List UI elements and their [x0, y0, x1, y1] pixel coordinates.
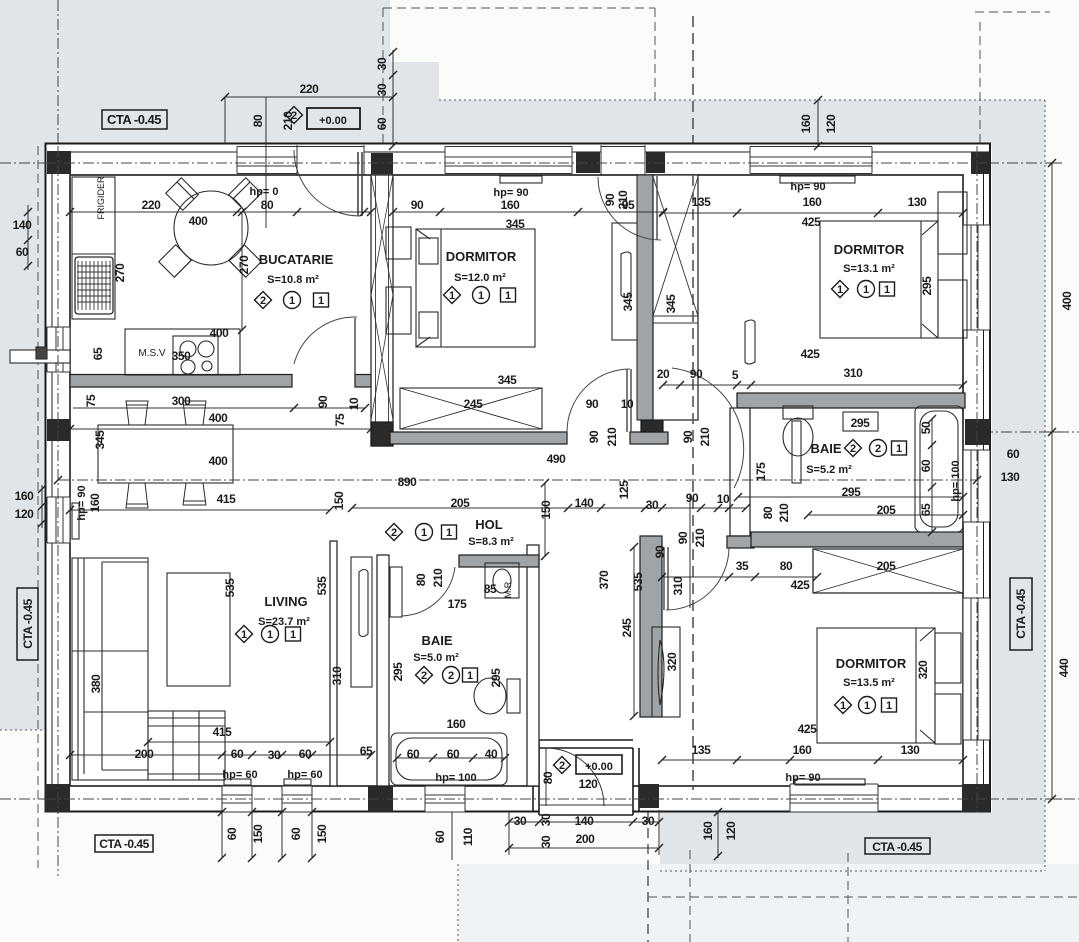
- svg-text:160: 160: [15, 489, 35, 503]
- svg-text:2: 2: [875, 443, 881, 455]
- svg-text:2: 2: [291, 110, 297, 122]
- svg-text:60: 60: [16, 245, 29, 259]
- svg-text:60: 60: [225, 827, 239, 840]
- svg-text:1: 1: [837, 284, 843, 296]
- svg-text:1: 1: [478, 290, 484, 302]
- svg-text:75: 75: [333, 413, 347, 426]
- svg-text:120: 120: [579, 777, 599, 791]
- svg-text:90: 90: [603, 193, 617, 206]
- svg-text:hp= 60: hp= 60: [222, 769, 257, 781]
- svg-text:140: 140: [575, 496, 595, 510]
- svg-text:120: 120: [824, 114, 838, 134]
- svg-text:90: 90: [653, 545, 667, 558]
- svg-text:120: 120: [15, 507, 35, 521]
- svg-text:425: 425: [798, 722, 818, 736]
- svg-text:hp= 90: hp= 90: [76, 485, 88, 520]
- svg-text:90: 90: [676, 531, 690, 544]
- svg-text:210: 210: [431, 568, 445, 588]
- svg-text:85: 85: [484, 582, 497, 596]
- svg-text:1: 1: [864, 700, 870, 712]
- svg-text:120: 120: [724, 821, 738, 841]
- svg-text:65: 65: [360, 744, 373, 758]
- svg-text:5: 5: [732, 368, 739, 382]
- svg-text:295: 295: [920, 276, 934, 296]
- svg-text:160: 160: [447, 717, 467, 731]
- svg-text:S=13.5 m²: S=13.5 m²: [843, 677, 895, 689]
- svg-text:LIVING: LIVING: [264, 594, 307, 609]
- svg-text:90: 90: [411, 198, 424, 212]
- svg-text:175: 175: [448, 597, 468, 611]
- svg-text:+0.00: +0.00: [319, 115, 347, 127]
- svg-text:135: 135: [692, 743, 712, 757]
- svg-text:80: 80: [251, 114, 265, 127]
- svg-text:350: 350: [172, 349, 192, 363]
- svg-text:160: 160: [501, 198, 521, 212]
- svg-text:hp= 100: hp= 100: [950, 460, 962, 501]
- svg-text:1: 1: [884, 284, 890, 296]
- svg-text:M.R: M.R: [503, 581, 513, 598]
- svg-text:140: 140: [575, 814, 595, 828]
- svg-text:425: 425: [791, 578, 811, 592]
- svg-text:hp= 90: hp= 90: [790, 181, 825, 193]
- svg-text:S=8.3 m²: S=8.3 m²: [468, 536, 514, 548]
- svg-text:1: 1: [840, 700, 846, 712]
- svg-text:1: 1: [241, 629, 247, 641]
- svg-text:270: 270: [113, 263, 127, 283]
- svg-text:2: 2: [559, 760, 565, 772]
- svg-text:90: 90: [686, 491, 699, 505]
- svg-text:1: 1: [421, 527, 427, 539]
- svg-text:S=10.8 m²: S=10.8 m²: [267, 274, 319, 286]
- svg-text:20: 20: [657, 367, 670, 381]
- svg-text:90: 90: [681, 430, 695, 443]
- svg-text:110: 110: [461, 827, 475, 846]
- svg-text:210: 210: [777, 503, 791, 523]
- svg-text:80: 80: [261, 198, 274, 212]
- svg-text:200: 200: [576, 832, 596, 846]
- svg-text:2: 2: [448, 670, 454, 682]
- svg-text:160: 160: [793, 743, 813, 757]
- svg-text:BAIE: BAIE: [810, 441, 841, 456]
- svg-text:1: 1: [289, 295, 295, 307]
- svg-text:160: 160: [803, 195, 823, 209]
- svg-text:135: 135: [692, 195, 712, 209]
- svg-text:BAIE: BAIE: [421, 633, 452, 648]
- svg-text:1: 1: [505, 290, 511, 302]
- svg-text:hp= 60: hp= 60: [287, 769, 322, 781]
- svg-text:150: 150: [332, 491, 346, 511]
- svg-text:S=13.1 m²: S=13.1 m²: [843, 263, 895, 275]
- svg-text:90: 90: [316, 395, 330, 408]
- svg-text:2: 2: [391, 527, 397, 539]
- svg-text:S=12.0 m²: S=12.0 m²: [454, 272, 506, 284]
- svg-text:400: 400: [209, 411, 229, 425]
- svg-text:370: 370: [597, 570, 611, 590]
- svg-text:425: 425: [801, 347, 821, 361]
- svg-text:160: 160: [701, 821, 715, 841]
- svg-text:1: 1: [290, 629, 296, 641]
- svg-text:130: 130: [908, 195, 928, 209]
- svg-text:+0.00: +0.00: [585, 761, 613, 773]
- svg-text:210: 210: [693, 528, 707, 548]
- svg-text:345: 345: [93, 430, 107, 450]
- svg-text:400: 400: [209, 454, 229, 468]
- svg-text:535: 535: [315, 576, 329, 596]
- svg-text:160: 160: [88, 493, 102, 513]
- svg-text:CTA -0.45: CTA -0.45: [107, 112, 161, 127]
- svg-text:150: 150: [251, 824, 265, 844]
- svg-text:210: 210: [616, 190, 630, 210]
- svg-text:DORMITOR: DORMITOR: [836, 656, 907, 671]
- svg-text:380: 380: [89, 674, 103, 694]
- svg-text:30: 30: [539, 813, 553, 826]
- svg-text:890: 890: [398, 475, 418, 489]
- svg-text:60: 60: [407, 747, 420, 761]
- svg-text:310: 310: [844, 366, 864, 380]
- svg-text:hp= 0: hp= 0: [249, 186, 278, 198]
- svg-text:400: 400: [189, 214, 209, 228]
- svg-text:BUCATARIE: BUCATARIE: [259, 252, 334, 267]
- svg-text:1: 1: [896, 443, 902, 455]
- svg-text:60: 60: [375, 117, 389, 130]
- svg-text:90: 90: [586, 397, 599, 411]
- svg-text:300: 300: [172, 394, 192, 408]
- svg-text:60: 60: [1007, 447, 1020, 461]
- svg-text:140: 140: [13, 218, 33, 232]
- svg-text:1: 1: [318, 295, 324, 307]
- svg-text:S=5.0 m²: S=5.0 m²: [413, 652, 459, 664]
- svg-text:150: 150: [315, 824, 329, 844]
- svg-text:320: 320: [665, 652, 679, 672]
- svg-text:295: 295: [851, 416, 871, 430]
- svg-text:60: 60: [919, 459, 933, 472]
- svg-text:50: 50: [919, 421, 933, 434]
- svg-text:FRIGIDER: FRIGIDER: [96, 176, 106, 220]
- svg-text:310: 310: [330, 666, 344, 686]
- svg-text:2: 2: [850, 443, 856, 455]
- svg-text:75: 75: [84, 394, 98, 407]
- svg-text:295: 295: [489, 668, 503, 688]
- svg-text:80: 80: [780, 559, 793, 573]
- svg-text:60: 60: [447, 747, 460, 761]
- svg-text:415: 415: [213, 725, 233, 739]
- svg-text:130: 130: [1001, 470, 1021, 484]
- svg-text:60: 60: [231, 747, 244, 761]
- svg-text:60: 60: [289, 827, 303, 840]
- svg-text:205: 205: [451, 496, 471, 510]
- svg-text:1: 1: [467, 670, 473, 682]
- svg-text:345: 345: [664, 294, 678, 314]
- svg-text:130: 130: [901, 743, 921, 757]
- svg-text:80: 80: [761, 506, 775, 519]
- svg-text:245: 245: [620, 618, 634, 638]
- svg-text:425: 425: [802, 215, 822, 229]
- svg-text:345: 345: [621, 292, 635, 312]
- svg-text:40: 40: [485, 747, 498, 761]
- svg-text:345: 345: [498, 373, 518, 387]
- svg-text:150: 150: [539, 500, 553, 520]
- svg-text:65: 65: [919, 503, 933, 516]
- svg-text:1: 1: [863, 284, 869, 296]
- svg-text:80: 80: [541, 771, 555, 784]
- svg-text:60: 60: [299, 747, 312, 761]
- svg-text:CTA -0.45: CTA -0.45: [1014, 588, 1028, 638]
- svg-text:210: 210: [605, 427, 619, 447]
- svg-text:30: 30: [539, 835, 553, 848]
- svg-text:hp= 100: hp= 100: [435, 772, 476, 784]
- svg-text:30: 30: [375, 83, 389, 96]
- svg-text:90: 90: [690, 367, 703, 381]
- svg-text:30: 30: [268, 748, 281, 762]
- svg-text:DORMITOR: DORMITOR: [446, 249, 517, 264]
- svg-text:M.S.V: M.S.V: [138, 348, 166, 359]
- svg-text:35: 35: [736, 559, 749, 573]
- svg-text:535: 535: [631, 572, 645, 592]
- svg-text:320: 320: [916, 660, 930, 680]
- svg-text:295: 295: [391, 662, 405, 682]
- svg-text:CTA -0.45: CTA -0.45: [21, 598, 35, 648]
- svg-text:220: 220: [300, 82, 320, 96]
- svg-text:30: 30: [514, 814, 527, 828]
- svg-text:175: 175: [754, 462, 768, 482]
- svg-text:160: 160: [799, 114, 813, 134]
- svg-text:60: 60: [433, 830, 447, 843]
- svg-text:80: 80: [414, 573, 428, 586]
- svg-text:1: 1: [886, 700, 892, 712]
- svg-text:CTA -0.45: CTA -0.45: [99, 837, 149, 851]
- svg-text:90: 90: [587, 430, 601, 443]
- svg-text:205: 205: [877, 503, 897, 517]
- svg-text:490: 490: [547, 452, 567, 466]
- svg-text:295: 295: [842, 485, 862, 499]
- svg-text:HOL: HOL: [475, 517, 503, 532]
- svg-text:345: 345: [506, 217, 526, 231]
- svg-text:1: 1: [449, 290, 455, 302]
- svg-text:30: 30: [642, 814, 655, 828]
- svg-text:CTA -0.45: CTA -0.45: [872, 840, 922, 854]
- svg-text:415: 415: [217, 492, 237, 506]
- svg-text:2: 2: [421, 670, 427, 682]
- svg-text:535: 535: [223, 578, 237, 598]
- svg-text:1: 1: [446, 527, 452, 539]
- svg-text:DORMITOR: DORMITOR: [834, 242, 905, 257]
- svg-text:10: 10: [347, 397, 361, 410]
- svg-text:440: 440: [1057, 658, 1071, 678]
- svg-text:220: 220: [142, 198, 162, 212]
- svg-text:30: 30: [375, 57, 389, 70]
- svg-text:S=5.2 m²: S=5.2 m²: [806, 464, 852, 476]
- svg-text:hp= 90: hp= 90: [785, 772, 820, 784]
- svg-text:125: 125: [617, 480, 631, 500]
- svg-text:10: 10: [717, 492, 730, 506]
- svg-text:2: 2: [260, 295, 266, 307]
- svg-text:65: 65: [91, 347, 105, 360]
- svg-text:1: 1: [267, 629, 273, 641]
- svg-text:10: 10: [621, 397, 634, 411]
- svg-text:30: 30: [646, 498, 659, 512]
- svg-text:245: 245: [464, 397, 484, 411]
- svg-text:205: 205: [877, 559, 897, 573]
- svg-text:270: 270: [237, 255, 251, 275]
- svg-text:400: 400: [210, 326, 230, 340]
- svg-text:200: 200: [135, 747, 155, 761]
- svg-text:210: 210: [698, 427, 712, 447]
- svg-text:310: 310: [671, 576, 685, 596]
- svg-text:400: 400: [1060, 291, 1074, 311]
